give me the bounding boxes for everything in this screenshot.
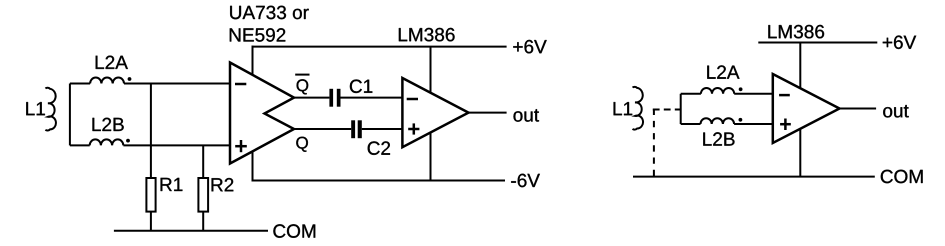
wire: -6V rail	[252, 180, 506, 182]
label out (left)	[514, 109, 540, 122]
phase dot L2A (right)	[739, 87, 743, 91]
label out (right)	[883, 105, 909, 118]
label L2B	[93, 118, 124, 131]
phase dot L2B	[126, 139, 130, 143]
label COM (right)	[881, 170, 923, 184]
wire: vertical joining L2A and L2B left ends	[69, 84, 71, 146]
resistor R1	[146, 178, 155, 212]
ground bus COM (left)	[114, 230, 268, 232]
wire: +6V rail (left)	[252, 46, 507, 48]
label NE592	[230, 28, 285, 42]
label L1 (right)	[614, 102, 633, 115]
label L2A	[96, 56, 128, 69]
wire: C2 to U2 non-inverting input	[362, 128, 403, 130]
dashed wire: centre tap to COM rail	[653, 109, 655, 177]
wire: R1 column from inverting row	[150, 84, 152, 179]
label L2A (right)	[707, 65, 739, 78]
label LM386 (right)	[768, 25, 824, 39]
label LM386 (left)	[399, 28, 455, 42]
node Q label	[296, 137, 308, 152]
label -6V	[511, 174, 540, 188]
U2 plus input mark	[408, 123, 419, 134]
wire: Q output to C2	[294, 128, 351, 130]
wire: U2 V+ tap	[430, 47, 432, 93]
wire: vertical joining L2A and L2B (right)	[680, 94, 682, 124]
wire: U1 V- tap	[252, 151, 254, 181]
wire: U2 output	[469, 112, 507, 114]
phase dot L2B (right)	[739, 118, 743, 122]
U3 minus input mark	[779, 94, 790, 97]
phase dot L2A	[128, 77, 132, 81]
inductor L2B	[70, 139, 229, 145]
inductor L1	[45, 88, 56, 131]
label C2	[368, 141, 390, 155]
resistor R2	[198, 178, 208, 212]
wire: U3 output	[840, 108, 877, 110]
label C1	[350, 80, 372, 94]
label +6V (right)	[883, 36, 916, 50]
op-amp U3 LM386 (right)	[773, 74, 840, 143]
wire: COM rail (right)	[633, 176, 875, 178]
node Qbar overbar	[295, 74, 309, 76]
capacitor C2	[351, 120, 362, 138]
inductor L2A (right)	[681, 88, 773, 94]
op-amp U1 UA733/NE592	[230, 63, 294, 164]
wire: R1 bottom to ground bus	[150, 212, 152, 231]
U2 minus input mark	[407, 98, 418, 101]
dashed wire: L1 to L2 centre tap	[653, 109, 681, 111]
op-amp U2 LM386 (left)	[402, 78, 468, 147]
wire: +6V rail (right)	[758, 42, 877, 44]
capacitor C1	[329, 89, 340, 107]
label COM (left)	[273, 224, 315, 238]
label R1	[161, 178, 183, 191]
inductor L2A	[70, 78, 229, 84]
node Qbar label	[297, 79, 309, 94]
inductor L2B (right)	[681, 118, 773, 124]
wire: U2 V- tap	[430, 133, 432, 181]
label UA733 or	[230, 6, 309, 20]
U3 plus input mark	[780, 119, 791, 131]
U1 minus input mark	[235, 83, 246, 86]
wire: U3 V- tap	[799, 129, 801, 177]
inductor L1 (right)	[633, 87, 644, 130]
wire: U1 V+ tap	[252, 46, 254, 75]
wire: U3 V+ tap	[799, 43, 801, 89]
label L2B (right)	[703, 132, 734, 145]
wire: R2 bottom to ground bus	[202, 212, 204, 231]
wire: R2 column from non-inverting row	[202, 145, 204, 178]
label +6V (left)	[513, 40, 546, 54]
label R2	[212, 178, 234, 191]
wire: Qbar output to C1	[294, 97, 329, 99]
wire: C1 to U2 inverting input	[341, 97, 403, 99]
label L1	[26, 102, 45, 115]
U1 plus input mark	[235, 140, 247, 152]
